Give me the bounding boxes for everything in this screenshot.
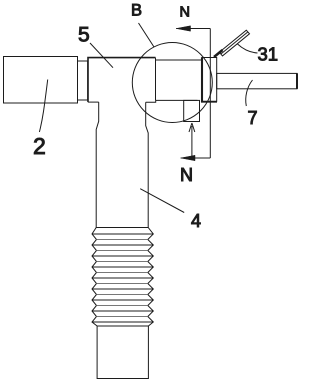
flange bar bottom bold edge xyxy=(201,101,217,103)
leader 4 xyxy=(140,189,184,213)
leader 7 xyxy=(246,80,253,106)
bottom pipe xyxy=(97,326,148,379)
leader 2 xyxy=(39,80,47,133)
flange bar (valve plate) left bold edge xyxy=(201,57,203,102)
up arrow at step xyxy=(189,123,195,158)
top N arrow xyxy=(176,28,210,30)
leader 5 xyxy=(90,43,113,68)
detail circle B xyxy=(132,43,212,123)
bottom N arrow xyxy=(181,157,211,159)
flange bar top and right edges xyxy=(202,58,217,102)
flange between cylinder 2 and body xyxy=(78,61,88,100)
pin 31 bold base xyxy=(214,50,223,57)
step rect below body right xyxy=(184,100,200,121)
bellows waist lines xyxy=(97,240,148,317)
cylinder 2 xyxy=(4,57,78,104)
vertical pipe neck xyxy=(96,102,99,227)
svg-text:B: B xyxy=(131,2,142,20)
bellows (corrugated hose) xyxy=(92,228,153,327)
right pipe end cap bold xyxy=(296,73,298,88)
svg-text:7: 7 xyxy=(248,108,258,128)
bellows right zigzag edge xyxy=(148,228,154,327)
svg-text:2: 2 xyxy=(33,133,46,159)
body bottom right shoulder xyxy=(146,100,156,102)
pipe bottom edge xyxy=(96,227,148,229)
bellows left zigzag edge xyxy=(92,228,97,327)
svg-text:N: N xyxy=(180,4,190,20)
bellows fold crease lines xyxy=(92,234,153,322)
svg-text:5: 5 xyxy=(78,24,90,47)
leader 31 xyxy=(238,44,258,53)
pin 31 body xyxy=(219,30,249,56)
main body outline xyxy=(88,58,156,103)
section line N-N vertical xyxy=(209,29,211,159)
body bottom left shoulder xyxy=(88,101,99,103)
svg-text:31: 31 xyxy=(258,44,279,65)
leader B xyxy=(139,23,155,47)
right pipe 7 xyxy=(217,73,297,88)
svg-text:N: N xyxy=(180,165,193,185)
inner rect (valve seat, detail B) xyxy=(156,58,203,101)
svg-text:4: 4 xyxy=(191,211,201,231)
